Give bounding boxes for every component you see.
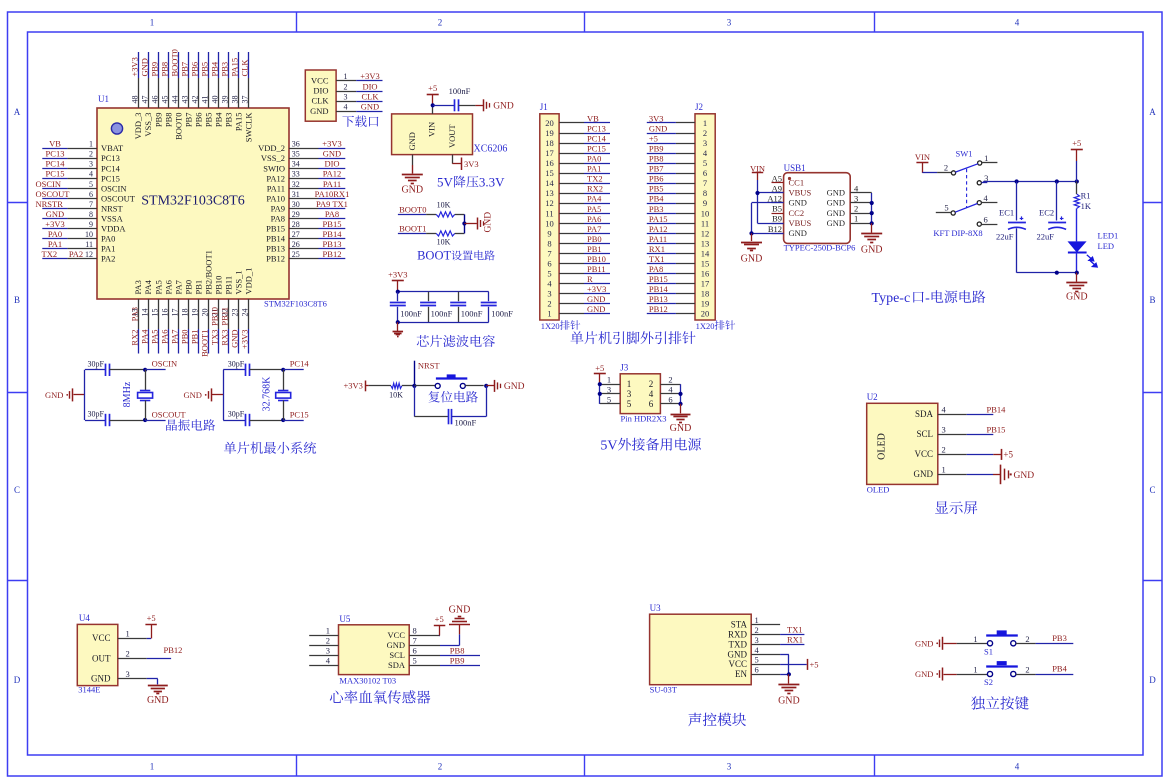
svg-text:18: 18 [701,289,710,299]
svg-text:29: 29 [292,210,300,219]
ground GND (bar style, vertical text) [464,212,493,233]
U1 pin 22 (PB11) wire + net RX3 PB11 [220,276,234,354]
svg-text:GND: GND [915,638,933,648]
svg-text:J1: J1 [540,102,548,112]
svg-text:12: 12 [85,250,93,259]
svg-text:PA2: PA2 [101,254,115,264]
svg-text:PB14: PB14 [323,229,343,239]
svg-text:8: 8 [413,626,417,636]
svg-text:OSCIN: OSCIN [36,179,62,189]
U1 pin 29 (PA8) wire + net PA8 [271,209,346,224]
svg-text:100nF: 100nF [461,309,483,319]
svg-text:RX3: RX3 [220,330,230,346]
svg-text:1: 1 [326,626,330,636]
svg-text:2: 2 [1025,634,1029,644]
USB1 pin A9 (VBUS) stub [772,183,812,197]
J2 pin 4 wire + net PB9 [647,144,708,159]
wire J3 right rail [678,384,682,406]
ground GND earth (U3) [778,674,800,706]
svg-text:PB14: PB14 [266,234,286,244]
svg-text:10K: 10K [389,391,403,400]
U1 pin 9 (VDDA) wire + net +3V3 [42,219,126,234]
svg-text:VOUT: VOUT [447,124,457,148]
svg-text:12: 12 [701,228,710,238]
svg-text:36: 36 [292,140,300,149]
svg-text:100nF: 100nF [400,309,422,319]
svg-text:PA0: PA0 [587,154,601,164]
J1 pin 20 wire + net VB [545,113,610,128]
svg-text:GND: GND [493,102,514,112]
svg-text:S2: S2 [984,677,993,687]
svg-text:SCL: SCL [916,429,933,439]
svg-text:VBUS: VBUS [789,188,812,198]
svg-text:+3V3: +3V3 [587,284,606,294]
net label PB9 [440,656,480,666]
svg-text:PB7: PB7 [183,113,193,128]
svg-text:RX1: RX1 [787,635,803,645]
svg-text:9: 9 [703,198,707,208]
connector J1 1x20 header body [540,114,559,320]
connector J2 1x20 header body [695,114,715,320]
svg-text:10: 10 [701,208,710,218]
J1 designator [540,102,548,112]
svg-text:17: 17 [701,279,710,289]
svg-text:+5: +5 [428,83,437,93]
svg-text:PA6: PA6 [159,330,169,344]
svg-text:SWCLK: SWCLK [244,112,254,143]
svg-text:PB1: PB1 [193,280,203,295]
U2 designator [867,392,878,402]
svg-text:2: 2 [547,299,551,309]
J1 pin 8 wire + net PB0 [547,234,610,249]
U2 pin 2 (VCC) wire [914,444,966,459]
svg-text:4: 4 [344,102,348,111]
svg-text:7: 7 [547,248,551,258]
svg-text:GND: GND [183,390,201,400]
svg-text:+3V3: +3V3 [240,330,250,349]
svg-text:KFT DIP-8X8: KFT DIP-8X8 [933,228,982,238]
svg-text:R1: R1 [1081,190,1091,200]
svg-text:U2: U2 [867,392,878,402]
svg-text:STA: STA [731,619,748,629]
J2 pin 9 wire + net PB4 [647,194,707,209]
J3 pin 6 stub [649,394,681,409]
svg-text:GND: GND [741,254,763,265]
svg-text:PB13: PB13 [323,239,342,249]
svg-text:3144E: 3144E [78,685,100,695]
U3 pin 2 (RXD) wire [728,625,780,640]
svg-text:14: 14 [140,309,149,317]
svg-text:14: 14 [701,248,710,258]
ground GND inverted earth (U5) [440,605,470,646]
svg-text:2: 2 [942,444,946,454]
svg-text:+5: +5 [147,613,156,623]
svg-text:C: C [14,485,20,495]
J2 pin 17 wire + net PB15 [647,274,709,289]
caption MCU pin breakout headers [570,331,695,344]
svg-text:VDDA: VDDA [101,224,126,234]
J2 pin 10 wire + net PB3 [647,204,709,219]
svg-text:GND: GND [449,605,471,616]
svg-text:PB12: PB12 [323,249,342,259]
svg-text:45: 45 [160,96,169,104]
capacitor 30pF bottom [85,410,145,427]
U1 pin 17 (PA7) wire + net PA7 [169,280,183,353]
svg-text:1: 1 [89,140,93,149]
svg-text:2: 2 [438,18,443,28]
svg-text:BOOT0: BOOT0 [399,205,426,215]
USB1 pin B9 (VBUS) stub [772,214,812,228]
U1 pin 33 (PA12) wire + net PA12 [266,169,345,184]
svg-text:CLK: CLK [362,91,380,101]
svg-text:MAX30102 T03: MAX30102 T03 [339,676,396,686]
ground GND (bar style) crystal [183,388,223,401]
svg-text:5: 5 [607,394,611,404]
net label PB15 [967,424,1006,434]
J1 pin 4 wire + net R [547,274,610,289]
svg-text:22uF: 22uF [996,232,1014,242]
svg-text:38: 38 [231,96,240,104]
U1 pin 18 (PB0) wire + net PB0 [180,280,194,354]
wire node top + net PC14 [281,359,309,372]
svg-text:GND: GND [1014,471,1035,481]
svg-text:VSS_2: VSS_2 [261,153,285,163]
J2 pin 13 wire + net PA11 [647,234,709,249]
power port +5 (U3) [780,659,818,670]
U1 pin 1 (VBAT) wire + net VB [42,139,124,154]
svg-text:2: 2 [1025,665,1029,675]
U1 pin 21 (PB10) wire + net TX3 PB10 [210,276,224,354]
pushbutton reset [414,374,488,388]
svg-text:PB15: PB15 [649,274,668,284]
svg-text:PA7: PA7 [169,330,179,344]
svg-text:J2: J2 [695,102,703,112]
svg-text:PA1: PA1 [48,239,62,249]
svg-text:47: 47 [140,96,149,104]
svg-text:PA11: PA11 [323,179,341,189]
USB1 pin A5 (CC1) stub [772,173,805,187]
svg-text:GND: GND [789,198,807,208]
U1 pin 8 (VSSA) wire + net GND [42,209,123,224]
svg-text:PB15: PB15 [987,424,1006,434]
svg-text:A: A [1149,107,1156,117]
U1 pin 7 (NRST) wire + net NRSTR [36,199,124,214]
wire crystal left rail [84,370,86,420]
svg-text:TX1: TX1 [787,625,803,635]
U5 pin 1 stub [309,626,338,636]
J1 pin 11 wire + net PA5 [545,204,610,219]
svg-text:PA6: PA6 [587,214,601,224]
svg-text:1: 1 [150,18,155,28]
net label NRST [418,360,441,370]
svg-text:NRSTR: NRSTR [36,199,64,209]
svg-text:TX3: TX3 [210,330,220,346]
svg-text:PC15: PC15 [101,173,120,183]
svg-text:GND: GND [728,649,748,659]
svg-text:PC14: PC14 [587,133,607,143]
svg-text:PB9: PB9 [649,144,664,154]
J1 pin 18 wire + net PC14 [545,133,610,148]
svg-text:100nF: 100nF [449,86,471,96]
svg-text:GND: GND [139,58,149,76]
ground GND earth (filter caps) [393,322,404,336]
svg-text:D: D [14,675,21,685]
svg-text:PC14: PC14 [101,163,121,173]
U1 pin 5 (OSCIN) wire + net OSCIN [36,179,127,194]
svg-text:C: C [1149,485,1155,495]
svg-text:27: 27 [292,230,300,239]
pushbutton S2 [957,661,1030,687]
caption 5V external backup power [600,438,701,454]
U1 pin 13 (PA3) wire + net RX2 PA3 [129,280,143,353]
svg-text:PA9 TX1: PA9 TX1 [316,199,348,209]
J2 pin 3 wire + net +5 [647,133,707,148]
svg-text:11: 11 [545,208,553,218]
svg-text:PB6: PB6 [193,113,203,128]
svg-text:PA1: PA1 [587,164,601,174]
svg-text:VCC: VCC [914,449,933,459]
svg-text:1: 1 [755,615,759,625]
U1 pin 26 (PB13) wire + net PB13 [266,239,345,254]
svg-text:16: 16 [701,269,710,279]
svg-text:PB0: PB0 [183,280,193,295]
svg-text:A5: A5 [772,173,782,183]
svg-text:1: 1 [942,464,946,474]
svg-text:PA4: PA4 [139,329,149,344]
svg-text:16: 16 [160,309,169,317]
wire VOUT to 3V3 [452,155,461,164]
svg-text:PC15: PC15 [290,409,309,419]
wire bottom bus [396,320,489,324]
U4 designator [79,613,90,623]
U3 part name SU-03T [650,685,678,695]
svg-text:PB12: PB12 [649,304,668,314]
svg-text:20: 20 [201,309,210,317]
caption voice control module [688,713,746,727]
svg-text:48: 48 [130,96,139,104]
svg-text:2: 2 [854,204,858,214]
capacitor 100nF filter 1 [390,292,423,323]
USB1 designator [784,163,806,173]
svg-text:12: 12 [545,198,554,208]
net label PB8 [440,646,480,656]
ground GND earth (U4) [147,679,169,707]
svg-text:TYPEC-250D-BCP6: TYPEC-250D-BCP6 [784,243,856,253]
wire node bottom + net OSCOUT [143,409,186,422]
connector J3 HDR2X3 body [620,374,660,414]
svg-text:3.3V: 3.3V [479,175,505,190]
J2 pin 19 wire + net PB13 [647,294,709,309]
svg-text:18: 18 [181,309,190,317]
svg-text:10K: 10K [437,237,451,246]
caption chip filter capacitors [417,335,495,347]
svg-text:3V3: 3V3 [649,113,664,123]
svg-text:PA7: PA7 [587,224,601,234]
U1 pin 47 (VSS_3) wire + net GND [139,52,153,137]
net label PB14 [967,404,1006,414]
svg-text:BOOT1: BOOT1 [200,330,210,357]
svg-text:EC2: EC2 [1039,208,1054,218]
svg-text:B12: B12 [768,224,782,234]
svg-text:PB12: PB12 [266,254,285,264]
svg-text:100nF: 100nF [491,309,513,319]
svg-text:A: A [14,107,21,117]
crystal 32.768K [261,370,290,420]
svg-text:1X20: 1X20 [696,321,715,331]
U1 pin 34 (SWIO) wire + net DIO [263,159,345,174]
svg-text:6: 6 [547,258,551,268]
power port +3V3 (filter caps) [388,270,407,292]
svg-text:2: 2 [944,163,948,173]
svg-text:6: 6 [649,399,654,409]
svg-text:5: 5 [703,158,707,168]
U3 pin 6 (EN) wire [735,665,780,680]
J1 pin 6 wire + net PB10 [547,254,610,269]
U1 designator [98,94,109,104]
caption BOOT setting circuit [417,249,495,263]
svg-text:4: 4 [1015,18,1020,28]
svg-text:1: 1 [547,309,551,319]
J2 pin 8 wire + net PB5 [647,184,707,199]
svg-text:GND: GND [914,469,934,479]
power port +5 (OLED) [967,449,1014,460]
svg-text:3: 3 [607,384,611,394]
svg-text:PB12: PB12 [164,645,183,655]
svg-text:3: 3 [727,18,732,28]
svg-text:VSS_1: VSS_1 [234,270,244,294]
U1 pin 45 (PB8) wire + net PB8 [159,52,173,127]
capacitor 100nF bypass [433,86,476,111]
svg-text:PB15: PB15 [323,219,342,229]
download port pin 4 (GND) wire + net GND [310,101,382,115]
U3 pin 4 (GND) wire [728,645,781,660]
J3 part name Pin HDR2X3 [621,414,667,424]
XC6206 designator [474,144,508,155]
J1 pin 17 wire + net PC15 [545,144,610,159]
svg-text:30pF: 30pF [88,359,105,368]
svg-text:39: 39 [221,96,230,104]
svg-text:PA11: PA11 [649,234,667,244]
sensor U4 3144E body [77,624,118,685]
svg-text:TX2: TX2 [587,174,603,184]
svg-text:PA10: PA10 [266,193,285,203]
svg-text:GND: GND [827,188,845,198]
svg-text:30pF: 30pF [228,359,245,368]
svg-text:PB10: PB10 [214,276,224,295]
J2 pin 15 wire + net TX1 [647,254,709,269]
svg-text:PC13: PC13 [46,149,65,159]
svg-text:TXD: TXD [729,639,748,649]
svg-text:PB13: PB13 [266,244,285,254]
svg-text:8: 8 [89,210,93,219]
svg-text:VIN: VIN [427,122,437,137]
capacitor EC1 22uF [996,182,1026,273]
svg-text:PB7: PB7 [649,164,664,174]
svg-text:RX1: RX1 [649,244,665,254]
U1 pin 23 (VSS_1) wire + net GND [230,270,244,353]
svg-text:U1: U1 [98,94,109,104]
svg-text:2: 2 [126,649,130,659]
svg-text:BOOT0: BOOT0 [173,113,183,140]
download port pin 3 (CLK) wire + net CLK [312,91,383,105]
svg-text:TX2: TX2 [42,249,58,259]
resistor R1 1K [1074,182,1092,211]
wire SW1 pin3 to +5 rail [981,182,987,184]
svg-text:NRST: NRST [101,203,124,213]
U1 pin 37 (SWCLK) wire + net CLK [240,52,254,142]
svg-text:PA0: PA0 [48,229,62,239]
U5 pin 5 (SDA) wire [388,656,440,671]
svg-text:PB9: PB9 [149,62,159,77]
svg-text:PB11: PB11 [224,276,234,295]
U1 pin 2 (PC13) wire + net PC13 [42,149,120,164]
svg-text:GND: GND [587,304,605,314]
resistor 10K (BOOT0) [436,200,455,217]
connector download port (VCC DIO CLK GND) body [305,70,336,121]
U1 pin 43 (PB7) wire + net PB7 [180,52,194,127]
svg-text:GND: GND [827,198,845,208]
net label BOOT0 + wire [398,205,436,215]
svg-text:6: 6 [703,168,707,178]
caption MCU minimum system [224,442,316,454]
svg-text:PA8: PA8 [649,264,663,274]
svg-text:2: 2 [438,762,443,772]
svg-text:23: 23 [231,309,240,317]
U3 pin 1 (STA) wire [731,615,780,630]
svg-text:RX2: RX2 [587,184,603,194]
svg-text:U4: U4 [79,613,90,623]
svg-text:PB9: PB9 [153,113,163,128]
net label PB4 [1016,664,1073,675]
svg-text:1X20: 1X20 [541,321,560,331]
svg-text:GND: GND [827,218,845,228]
svg-text:1: 1 [973,634,977,644]
svg-text:OUT: OUT [92,653,111,663]
svg-text:CLK: CLK [312,96,330,106]
capacitor 100nF (reset) [414,386,486,428]
svg-text:4: 4 [89,170,93,179]
svg-text:5V: 5V [437,175,454,190]
svg-text:PA15: PA15 [230,58,240,77]
J1 pin 2 wire + net GND [547,294,610,309]
svg-text:PA15: PA15 [234,113,244,132]
ground GND earth below XC6206 [401,175,423,196]
U5 pin 7 (GND) wire [387,636,440,651]
svg-text:10: 10 [85,230,93,239]
wire node top + net OSCIN [143,359,177,372]
svg-text:PA12: PA12 [266,173,285,183]
svg-text:PB10: PB10 [210,307,220,326]
wire NRST node [402,361,417,388]
svg-text:30pF: 30pF [88,410,105,419]
svg-text:15: 15 [545,168,554,178]
svg-text:GND: GND [323,149,341,159]
svg-text:15: 15 [701,258,710,268]
U1 pin 10 (PA0) wire + net PA0 [42,229,115,244]
svg-text:-: - [925,291,930,306]
svg-text:PB6: PB6 [190,62,200,77]
svg-text:GND: GND [91,674,111,684]
svg-text:VCC: VCC [388,630,406,640]
U1 pin 14 (PA4) wire + net PA4 [139,279,153,353]
J3 pin 3 stub [600,384,632,399]
sensor U5 MAX30102 body [339,625,410,675]
caption reset circuit [428,391,477,403]
svg-text:B5: B5 [772,204,782,214]
svg-text:DIO: DIO [362,81,377,91]
wire node bottom + net PC15 [281,409,309,422]
ground GND earth (power circuit) [1066,273,1088,303]
